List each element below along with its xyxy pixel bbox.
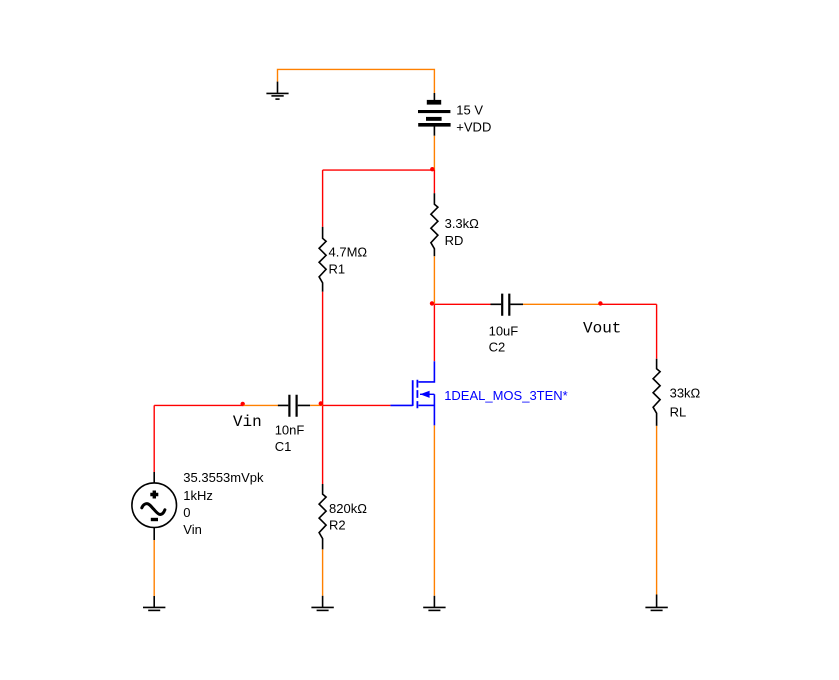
wire Vin source bottom to ground (orange) [153,540,155,596]
svg-text:33kΩ: 33kΩ [670,385,701,400]
svg-text:1DEAL_MOS_3TEN*: 1DEAL_MOS_3TEN* [444,388,568,403]
wire R1 bottom through gate node to R2 top (red) [322,292,324,484]
svg-text:1kHz: 1kHz [183,488,213,503]
source V2 Vin AC source [132,472,177,540]
wire drain junction down to MOSFET drain (red) [433,304,435,361]
resistor R1 [319,227,326,292]
wire gate row left segment Vin source to Vin node (red) [154,404,243,406]
resistor R2 [319,484,326,549]
wire battery bottom to VDD junction (orange) [433,136,435,171]
wire C1 right to gate node (orange) [310,404,323,406]
capacitor C1 [278,395,310,417]
ground under R2 [311,596,333,611]
transistor Q1 1DEAL_MOS_3TEN [390,361,434,425]
svg-text:R2: R2 [329,517,346,532]
ground top-left [266,82,288,100]
wire VDD rail horizontal (red) [323,169,435,171]
svg-text:Vout: Vout [583,319,621,337]
svg-text:RL: RL [670,405,687,420]
wire gate node to MOSFET gate (red) [323,404,391,406]
node gate junction [319,401,323,405]
wire Vout node to RL corner (red) [600,303,657,305]
node drain junction [430,301,434,305]
wire RL bottom to ground (orange) [656,426,658,595]
wire corner down to RL top (red) [656,304,658,358]
wire top orange run from ground to battery top [278,69,435,93]
wire VDD rail to R1 top (red) [322,170,324,227]
wire drain junction right to C2 (red) [434,303,490,305]
svg-text:RD: RD [445,233,464,248]
capacitor C2 [491,294,524,316]
svg-text:C1: C1 [275,439,292,454]
wire Vin node to C1 (orange) [244,404,279,406]
wire RD bottom to drain junction (orange) [433,256,435,303]
svg-text:4.7MΩ: 4.7MΩ [329,244,368,259]
ground under Vin source [143,596,165,610]
svg-text:15 V: 15 V [456,103,483,118]
battery V1 15V +VDD [418,93,451,136]
svg-text:R1: R1 [329,261,346,276]
wire R2 bottom to ground (orange) [322,549,324,595]
ground under RL [645,595,667,611]
svg-text:35.3553mVpk: 35.3553mVpk [183,470,264,485]
svg-text:10uF: 10uF [489,323,519,338]
node Vout [598,301,602,305]
svg-text:+VDD: +VDD [456,120,491,135]
node VDD junction [430,167,434,171]
svg-text:3.3kΩ: 3.3kΩ [445,216,480,231]
wire VDD junction to RD top (red) [433,170,435,193]
svg-text:0: 0 [183,505,190,520]
ground under MOSFET [423,596,445,611]
svg-text:C2: C2 [489,339,506,354]
svg-text:Vin: Vin [233,413,262,431]
wire Vin source top to gate row (red) [153,405,155,472]
svg-text:Vin: Vin [183,522,202,537]
node Vin [241,402,245,406]
resistor RD [431,193,438,256]
wire MOSFET source down to ground (orange) [433,425,435,595]
svg-text:820kΩ: 820kΩ [329,501,367,516]
resistor RL [653,359,660,426]
wire C2 right to Vout node (orange) [523,303,601,305]
svg-text:10nF: 10nF [275,423,305,438]
